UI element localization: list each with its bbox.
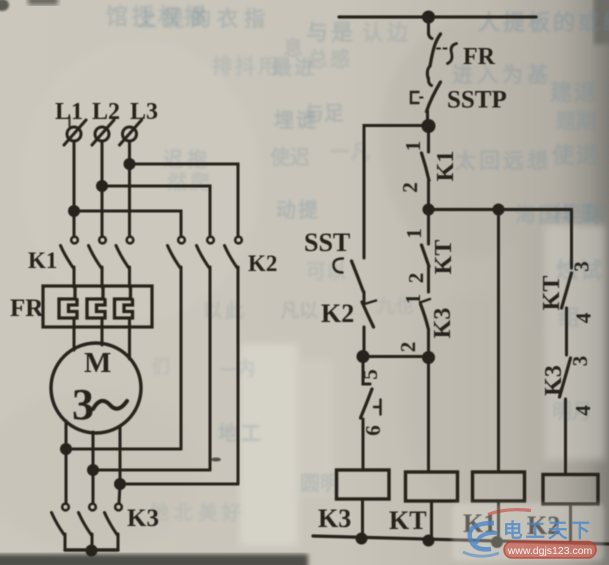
contact K3 3-4 (NO) [560, 358, 571, 474]
svg-text:2: 2 [404, 273, 428, 284]
thermal relay FR box [43, 286, 152, 327]
contactor K3 pole3 [105, 504, 122, 550]
node bottom K1 [491, 536, 503, 548]
watermark red swoosh [488, 510, 531, 515]
light patch right mid [545, 225, 605, 460]
svg-text:迟抱: 迟抱 [163, 147, 211, 171]
svg-text:K2: K2 [321, 299, 354, 328]
svg-text:2: 2 [398, 182, 422, 193]
light patch center between circuits [240, 344, 298, 546]
FR heater element 3 [115, 288, 133, 318]
svg-text:L2: L2 [92, 99, 120, 125]
timed contact KT 5-6 (delayed NC) [361, 357, 381, 471]
FR heater element 1 [59, 288, 77, 318]
wire K3 coil to rail [361, 499, 364, 539]
wire K2 coil to rail [569, 504, 572, 543]
node bottom KT [423, 535, 435, 547]
wire delta1 to K2 pole1 [66, 448, 181, 451]
svg-text:与是: 与是 [306, 20, 356, 45]
contact K2 (NC interlock) [362, 301, 376, 353]
wire motor out2 [92, 432, 95, 470]
wire L1 to K2 pole1 [74, 211, 181, 235]
bleed-through blue text layer [106, 4, 609, 524]
svg-text:使退: 使退 [551, 143, 600, 168]
svg-text:KT: KT [539, 276, 565, 311]
svg-text:SST: SST [304, 228, 350, 257]
coil K1 [473, 472, 525, 501]
pushbutton SST (start, NO) [333, 259, 364, 303]
svg-text:SSTP: SSTP [447, 87, 507, 114]
wire FR2 to motor [101, 319, 104, 345]
wire delta2 to K2 pole2 [93, 469, 210, 472]
svg-text:3: 3 [72, 380, 94, 429]
wire mid rail [429, 208, 572, 211]
svg-text:使迟: 使迟 [269, 145, 310, 169]
svg-text:一凡: 一凡 [330, 142, 372, 163]
contactor K3 pole2 [79, 504, 96, 550]
scan artifact tick under L1 [68, 117, 70, 126]
dark top-right corner [594, 0, 609, 44]
node delta1 [60, 443, 72, 455]
node mid branch bottom [422, 351, 435, 364]
contact K3 1-2 (NC) [420, 299, 430, 352]
svg-text:地北美好: 地北美好 [150, 501, 246, 524]
wire motor out1 [65, 421, 68, 449]
svg-text:K3: K3 [318, 504, 351, 533]
node bottom K3 [356, 533, 368, 545]
node delta2 [87, 464, 99, 476]
wire to K3 pole2 [92, 470, 95, 503]
wire bottom rail N [313, 536, 609, 544]
wire L2 down [101, 141, 104, 235]
wire FR1 to motor [73, 319, 76, 350]
node SST branch [357, 350, 370, 363]
fuse FU3 [120, 120, 142, 145]
svg-text:题期: 题期 [556, 110, 596, 133]
pushbutton SSTP (stop, NC) [411, 78, 441, 120]
svg-text:4: 4 [572, 312, 596, 323]
svg-text:圆明: 圆明 [300, 472, 340, 495]
svg-text:K1: K1 [28, 248, 57, 273]
contact KT 1-2 (NO) [422, 210, 430, 293]
fuse FU1 [64, 120, 86, 145]
dark corner marks top-left [0, 0, 9, 11]
wire to K3 pole1 [65, 449, 68, 503]
svg-text:人提板的或编: 人提板的或编 [478, 10, 609, 35]
wire L2 to K2 pole2 [102, 186, 210, 235]
watermark logo swirl [463, 523, 499, 556]
wire rail to FR [428, 17, 432, 39]
paper shading blotches [380, 20, 560, 260]
contactor K2 pole1 [168, 237, 185, 449]
coil K2 [543, 475, 598, 505]
watermark backdrop [452, 503, 604, 561]
ink speck [211, 458, 221, 462]
contactor K1 pole1 [61, 237, 78, 287]
wire to K3 pole3 [119, 484, 120, 503]
wire L3 down [128, 141, 131, 235]
svg-text:3: 3 [570, 261, 594, 272]
svg-text:排抖用: 排抖用 [212, 54, 281, 78]
thermal contact FR (NC) [427, 34, 456, 78]
wire FR3 to motor [128, 319, 131, 359]
wire L1 down [73, 141, 76, 235]
wire to KT coil [427, 358, 430, 473]
coil KT [406, 472, 458, 501]
wire K1 branch [497, 210, 500, 473]
wire delta3 to K2 pole3 [120, 483, 238, 486]
svg-text:太回远想: 太回远想 [455, 149, 551, 173]
contactor K1 pole2 [89, 237, 106, 287]
svg-text:KT: KT [389, 506, 427, 535]
node mid rail left [423, 204, 435, 216]
node star point [86, 545, 98, 557]
dark band bottom left [0, 554, 308, 565]
svg-text:埋谜: 埋谜 [274, 109, 318, 132]
node delta3 [114, 478, 126, 490]
svg-text:上提的衣指: 上提的衣指 [136, 7, 271, 31]
svg-text:K1: K1 [433, 151, 459, 182]
wire branch to SST [364, 126, 429, 259]
contactor K1 pole3 [116, 237, 133, 287]
wire K1 coil to rail [497, 501, 500, 541]
wire KT coil to rail [430, 501, 433, 540]
svg-text:1: 1 [401, 141, 425, 152]
svg-text:然爬: 然爬 [167, 170, 213, 194]
svg-text:建退: 建退 [550, 80, 598, 105]
node L3 tap [124, 158, 136, 170]
svg-text:K3: K3 [541, 365, 567, 396]
svg-text:总感: 总感 [308, 47, 352, 71]
wire link to middle branch [363, 355, 429, 358]
svg-text:FR: FR [463, 44, 496, 70]
svg-text:KT: KT [431, 240, 457, 275]
contactor K3 pole1 [52, 504, 69, 550]
coil K3 [337, 470, 390, 499]
svg-text:K2: K2 [248, 251, 277, 276]
svg-text:K3: K3 [127, 505, 159, 532]
watermark banner [504, 542, 596, 559]
wire L3 to K2 pole3 [130, 164, 239, 235]
svg-text:4: 4 [571, 405, 595, 416]
svg-text:海国足球: 海国足球 [515, 203, 607, 227]
node L2 tap [96, 180, 108, 192]
svg-text:FR: FR [10, 295, 44, 322]
svg-text:认边: 认边 [362, 21, 412, 45]
svg-text:L3: L3 [130, 99, 158, 125]
node L1 tap [68, 205, 80, 217]
svg-text:凡以: 凡以 [280, 300, 318, 322]
watermark [452, 503, 604, 561]
contact KT 3-4 (delayed NO) [562, 273, 572, 355]
wire K3 star bar [65, 548, 118, 551]
node top rail tap [422, 11, 435, 24]
svg-text:们: 们 [152, 356, 170, 377]
svg-text:电工天下: 电工天下 [503, 519, 593, 542]
svg-text:6: 6 [361, 425, 385, 436]
contact K1 (self-hold NO) [422, 126, 430, 205]
wire motor out3 [119, 426, 122, 484]
node after SSTP [422, 119, 436, 133]
node mid rail K1 branch [493, 204, 505, 216]
svg-text:www.dgjs123.com: www.dgjs123.com [507, 545, 593, 557]
svg-text:K3: K3 [430, 308, 456, 339]
svg-text:动提: 动提 [276, 198, 320, 222]
svg-text:1: 1 [402, 228, 426, 239]
contactor K2 pole3 [225, 237, 242, 484]
wire top rail L [339, 15, 536, 18]
contactor K2 pole2 [197, 237, 214, 470]
svg-text:2: 2 [396, 342, 420, 353]
wire right branch corner [570, 210, 573, 269]
svg-text:M: M [84, 347, 111, 379]
fuse FU2 [92, 120, 114, 145]
svg-text:地工: 地工 [218, 422, 264, 445]
motor M1 [51, 343, 141, 433]
FR heater element 2 [87, 288, 105, 318]
